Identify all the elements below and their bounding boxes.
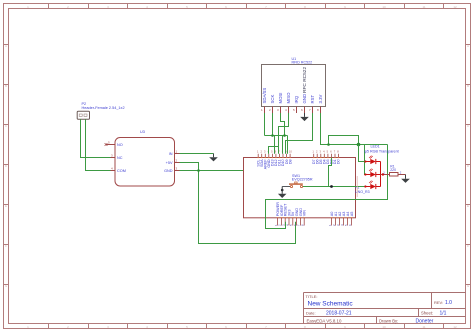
U3 pin stubs left: [106, 145, 115, 171]
svg-text:3.3V: 3.3V: [318, 95, 323, 104]
module P1 body: [244, 158, 356, 218]
svg-text:P2: P2: [82, 102, 87, 106]
U3 pin numbers: [108, 141, 178, 171]
wire SW1 to LED bottom anode: [303, 186, 366, 188]
ground below U1 GND pin: [300, 113, 309, 121]
wire RST: [286, 113, 313, 154]
svg-text:B: B: [467, 84, 469, 88]
svg-text:1.0: 1.0: [445, 300, 452, 306]
svg-text:2018-07-21: 2018-07-21: [326, 310, 352, 316]
svg-text:12: 12: [453, 325, 457, 329]
svg-text:A: A: [5, 44, 7, 48]
ground at R1: [401, 175, 410, 183]
wire D2 drop: [329, 158, 332, 187]
svg-text:EasyEDA V5.8.10: EasyEDA V5.8.10: [307, 318, 342, 323]
svg-text:GND: GND: [302, 94, 307, 104]
svg-text:Drawn By:: Drawn By:: [379, 318, 398, 323]
U1 pin names: [262, 88, 323, 104]
svg-text:+5V: +5V: [166, 161, 173, 165]
svg-text:A5: A5: [350, 212, 354, 217]
svg-text:F: F: [5, 244, 7, 248]
P1 top-left pin stubs: [258, 154, 290, 157]
P2 labels: [82, 102, 125, 110]
svg-text:11: 11: [422, 5, 425, 9]
svg-text:SDA/SS: SDA/SS: [262, 88, 267, 104]
wire MISO staircase: [269, 113, 289, 154]
ground at U3 IN: [209, 154, 218, 162]
svg-text:E: E: [5, 204, 7, 208]
wire 3.3V long run: [321, 113, 388, 145]
svg-text:Sheet:: Sheet:: [421, 310, 433, 315]
LED1 blue chip: [364, 181, 380, 190]
svg-text:12: 12: [453, 5, 457, 9]
svg-text:Doneter: Doneter: [416, 318, 434, 324]
svg-text:New Schematic: New Schematic: [308, 301, 354, 308]
relay U3 body: [115, 138, 175, 187]
svg-text:Header-Female 2.54_1x2: Header-Female 2.54_1x2: [82, 106, 125, 110]
svg-text:U3: U3: [140, 130, 145, 134]
svg-text:IRQ: IRQ: [294, 95, 299, 103]
U1 pin stubs: [265, 107, 321, 114]
svg-text:φ5 RGB Transparent: φ5 RGB Transparent: [365, 149, 399, 153]
svg-text:11: 11: [422, 325, 425, 329]
wire to LED top anode: [359, 145, 366, 162]
svg-text:B: B: [5, 84, 7, 88]
svg-text:TITLE:: TITLE:: [306, 294, 318, 299]
wire gnd loop: right vertical, bottom run, to GND pin: [266, 145, 388, 229]
svg-text:220: 220: [390, 168, 396, 172]
junction dots mesh: [271, 134, 274, 137]
svg-text:MISO: MISO: [286, 92, 291, 104]
node cathode to R1: [381, 174, 390, 176]
wire P2.1 to U3 NC: [81, 119, 111, 157]
R1 pin numbers: [383, 171, 402, 175]
LED1 red chip: [364, 156, 380, 165]
LED1 labels: [365, 145, 399, 154]
wire U3 +5V to UNO 5V: [180, 163, 296, 244]
U3 pin names: [117, 143, 173, 173]
wire to LED mid anode: [364, 145, 367, 175]
switch SW1 labels: [292, 174, 313, 182]
svg-text:10: 10: [382, 5, 386, 9]
svg-text:IN: IN: [169, 152, 173, 156]
svg-text:A: A: [467, 44, 469, 48]
svg-text:REV:: REV:: [434, 300, 443, 305]
R1 labels: [390, 164, 396, 172]
ground at SW1: [278, 187, 287, 199]
P1 bottom-right pin stubs: [332, 218, 352, 226]
svg-text:E: E: [467, 204, 469, 208]
junction at +5V drop crossing: [197, 169, 200, 172]
svg-text:NO: NO: [117, 143, 123, 147]
svg-text:10: 10: [382, 325, 386, 329]
svg-text:COM: COM: [117, 169, 126, 173]
svg-text:SCK: SCK: [270, 95, 275, 104]
wire P2.2 to U3 COM: [86, 119, 111, 170]
wire drop D12: [278, 136, 280, 154]
svg-text:F: F: [467, 244, 469, 248]
svg-text:D0: D0: [337, 159, 341, 164]
title block: [304, 293, 466, 324]
switch SW1 body: [289, 182, 303, 188]
wire drop D9: [287, 136, 289, 154]
svg-text:RST: RST: [310, 95, 315, 104]
resistor R1 body: [390, 173, 406, 177]
wire SCK: [272, 113, 274, 136]
wire SW1 left to ground: [282, 186, 290, 188]
P1 top-right pin stubs: [314, 154, 339, 157]
P1 top-right pin names: [312, 159, 341, 164]
wire SDA/SS: [264, 113, 266, 136]
U1 reference label: [292, 57, 313, 64]
wire U3 IN to ground: [180, 153, 214, 155]
P1 reference label: [355, 186, 370, 195]
junction on SW1 run: [330, 185, 333, 188]
P1 top-left pin names: [256, 159, 292, 170]
svg-text:RFID RC522: RFID RC522: [292, 60, 313, 64]
svg-text:1/1: 1/1: [440, 310, 447, 316]
svg-text:D8: D8: [288, 159, 292, 164]
connector P2 body: [77, 111, 89, 119]
P1 top pin numbers: [257, 150, 339, 154]
wire drop D11: [282, 136, 284, 154]
P1 bottom-right pin names: [330, 212, 354, 217]
svg-text:EVQ22705R: EVQ22705R: [292, 178, 313, 182]
P1 pin contact dots: [258, 157, 353, 219]
IC U1 body: [262, 65, 326, 107]
P1 bottom-left pin stubs: [278, 218, 305, 226]
svg-text:RFC RC522: RFC RC522: [302, 67, 308, 93]
U3 pin stubs right: [175, 154, 180, 171]
svg-text:Date:: Date:: [306, 310, 316, 315]
P1 bottom pin numbers: [274, 224, 352, 226]
svg-text:MOSI: MOSI: [278, 93, 283, 104]
P1 bottom-left pin names: [276, 202, 307, 217]
wire jog rectangle: [329, 136, 359, 145]
LED1 leader line: [356, 176, 358, 197]
svg-text:GND: GND: [164, 169, 173, 173]
wire drop D13: [274, 136, 276, 154]
U1 pin numbers: [261, 108, 319, 112]
wire U3 GND to SW1: [180, 171, 302, 186]
LED1 green chip: [364, 169, 380, 178]
svg-text:LED1: LED1: [371, 145, 380, 149]
LED1 cathode bus: [380, 162, 382, 187]
wire MOSI: [281, 113, 285, 136]
no-connect x on NO pin: [105, 143, 108, 146]
svg-text:VIN: VIN: [303, 210, 307, 217]
wire bus horizontal: [265, 135, 288, 137]
svg-text:NC: NC: [117, 156, 123, 160]
